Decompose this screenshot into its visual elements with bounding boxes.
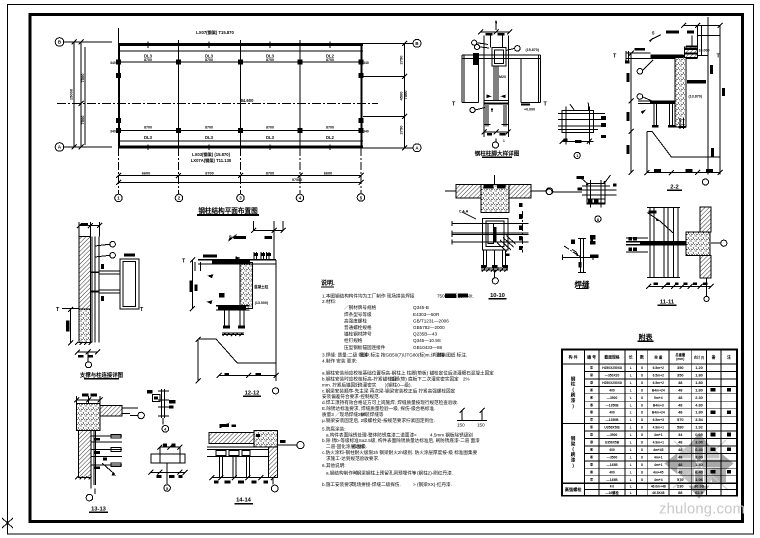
svg-text:④: ④ xyxy=(590,387,594,392)
svg-text:构·件: 构·件 xyxy=(569,354,578,359)
svg-text:L: L xyxy=(630,491,632,495)
svg-text:求施工-达到规范验收要求.: 求施工-达到规范验收要求. xyxy=(326,455,379,462)
svg-text:6600: 6600 xyxy=(142,171,150,175)
svg-text:—1350B: —1350B xyxy=(605,403,619,407)
svg-text:②: ② xyxy=(590,373,594,378)
svg-text:10-10: 10-10 xyxy=(490,293,505,299)
svg-text:8: 8 xyxy=(641,396,643,400)
svg-text:U356X5B: U356X5B xyxy=(605,441,620,445)
svg-text:1.06: 1.06 xyxy=(695,477,703,482)
svg-text:Q345—10.9S: Q345—10.9S xyxy=(413,338,441,343)
svg-text:580: 580 xyxy=(677,425,684,430)
svg-text:DL3: DL3 xyxy=(266,135,275,140)
svg-text:B4m+24: B4m+24 xyxy=(652,388,665,392)
svg-text:8700: 8700 xyxy=(205,58,213,62)
svg-text:400: 400 xyxy=(609,411,615,415)
svg-text:350: 350 xyxy=(677,373,684,378)
svg-text:L: L xyxy=(630,463,632,467)
svg-text:2.材料:: 2.材料: xyxy=(322,298,336,305)
svg-text:②: ② xyxy=(590,432,594,437)
svg-text:E4303—50R: E4303—50R xyxy=(413,312,440,317)
svg-text:L: L xyxy=(630,478,632,482)
svg-text:13-13: 13-13 xyxy=(91,507,107,513)
svg-text:4m+1: 4m+1 xyxy=(654,433,663,437)
svg-text:焊缝: 焊缝 xyxy=(575,279,590,289)
svg-text:8: 8 xyxy=(641,433,643,437)
svg-text:L: L xyxy=(630,485,632,489)
svg-text:84.600: 84.600 xyxy=(241,98,254,103)
svg-text:2750: 2750 xyxy=(399,55,404,65)
svg-text:③: ③ xyxy=(590,440,594,445)
svg-text:25d: 25d xyxy=(358,412,366,417)
svg-text:570: 570 xyxy=(677,477,684,482)
svg-text:F.0: F.0 xyxy=(610,485,615,489)
svg-text:30.08: 30.08 xyxy=(694,484,705,489)
svg-text:1.40: 1.40 xyxy=(695,462,703,467)
svg-text:(mm): (mm) xyxy=(676,357,684,361)
svg-text:1.80: 1.80 xyxy=(695,387,703,392)
svg-text:合计 (t): 合计 (t) xyxy=(694,354,704,359)
svg-text:—3500: —3500 xyxy=(607,433,618,437)
svg-text:8: 8 xyxy=(641,381,643,385)
svg-text:3.00: 3.00 xyxy=(695,440,703,445)
svg-text:DL2: DL2 xyxy=(326,135,335,140)
svg-text:1.80: 1.80 xyxy=(695,380,703,385)
svg-text:说明.: 说明. xyxy=(321,279,335,287)
svg-text:8: 8 xyxy=(641,448,643,452)
svg-text:B4m+3: B4m+3 xyxy=(653,403,664,407)
svg-text:4.9m+1: 4.9m+1 xyxy=(653,441,664,445)
svg-text:⑥: ⑥ xyxy=(590,410,594,415)
svg-text:0.05: 0.05 xyxy=(695,432,703,437)
svg-text:③: ③ xyxy=(590,380,594,385)
svg-text:46.5X48: 46.5X48 xyxy=(652,491,664,495)
svg-text:<钢梁钢柱上预留孔洞预埋件等: <钢梁钢柱上预留孔洞预埋件等 xyxy=(354,470,417,477)
svg-text:4m+45: 4m+45 xyxy=(653,448,664,452)
svg-text:4.80: 4.80 xyxy=(695,402,703,407)
svg-text:编 号: 编 号 xyxy=(587,354,596,359)
svg-text:> (钢柱2)-刷红丹漆.: > (钢柱2)-刷红丹漆. xyxy=(413,470,453,477)
svg-text:焊条型号等级: 焊条型号等级 xyxy=(344,311,372,318)
svg-text:L: L xyxy=(630,388,632,392)
svg-text:截面规格: 截面规格 xyxy=(604,354,619,359)
svg-text:15000: 15000 xyxy=(69,88,74,100)
svg-text:L: L xyxy=(630,418,632,422)
svg-text:L: L xyxy=(630,448,632,452)
svg-text:数: 数 xyxy=(639,354,644,359)
svg-text:(13.000): (13.000) xyxy=(255,301,269,305)
svg-text:图中:标注 按GB50(7)/JTG80(标)m,详图集: 图中:标注 按GB50(7)/JTG80(标)m,详图集 xyxy=(360,351,445,358)
svg-text:14-14: 14-14 xyxy=(236,498,252,504)
svg-text:230: 230 xyxy=(677,484,684,489)
svg-text:8700: 8700 xyxy=(326,125,334,129)
svg-text:L: L xyxy=(630,426,632,430)
svg-text:8700: 8700 xyxy=(144,58,152,62)
svg-text:6.5m+2: 6.5m+2 xyxy=(653,374,664,378)
svg-text:H250X250X8: H250X250X8 xyxy=(602,366,622,370)
svg-text:高强度螺栓: 高强度螺栓 xyxy=(344,317,367,324)
svg-text:11-11: 11-11 xyxy=(660,300,675,306)
svg-text:L: L xyxy=(630,374,632,378)
svg-text:C.A.H: C.A.H xyxy=(459,210,469,214)
svg-text:6.40: 6.40 xyxy=(695,447,703,452)
svg-text:8: 8 xyxy=(641,463,643,467)
svg-text:340: 340 xyxy=(363,130,369,134)
svg-text:2.30: 2.30 xyxy=(695,395,703,400)
svg-text:8: 8 xyxy=(641,478,643,482)
svg-text:⑤: ⑤ xyxy=(590,402,594,407)
svg-text:④: ④ xyxy=(590,454,594,459)
svg-text:DL3: DL3 xyxy=(205,135,214,140)
svg-text:7500: 7500 xyxy=(80,115,85,125)
svg-text:8700: 8700 xyxy=(266,58,274,62)
svg-text:L: L xyxy=(630,470,632,474)
svg-text:3.54: 3.54 xyxy=(695,417,703,422)
svg-text:①: ① xyxy=(590,425,594,430)
svg-text:1.80: 1.80 xyxy=(695,373,703,378)
svg-text:6.5m+2: 6.5m+2 xyxy=(653,366,664,370)
svg-text:zhulong.com: zhulong.com xyxy=(659,502,745,518)
svg-text:—1350B: —1350B xyxy=(605,418,619,422)
svg-text:4m+1: 4m+1 xyxy=(654,463,663,467)
svg-text:8: 8 xyxy=(641,426,643,430)
svg-text:⑦: ⑦ xyxy=(590,417,594,422)
svg-text:支撑与柱连接详图: 支撑与柱连接详图 xyxy=(79,371,124,379)
svg-text:⑥: ⑥ xyxy=(590,469,594,474)
svg-text:锚栓钢材牌号: 锚栓钢材牌号 xyxy=(344,331,372,338)
svg-text:8: 8 xyxy=(641,418,643,422)
svg-text:8: 8 xyxy=(641,455,643,459)
svg-text:普通螺栓规格: 普通螺栓规格 xyxy=(344,324,372,331)
svg-text:L: L xyxy=(630,455,632,459)
svg-text:GB5782—2000: GB5782—2000 xyxy=(413,325,445,330)
svg-text:4m+45: 4m+45 xyxy=(653,470,664,474)
svg-text:附表: 附表 xyxy=(639,333,654,342)
svg-text:L: L xyxy=(630,433,632,437)
svg-text:4500: 4500 xyxy=(399,91,404,101)
svg-text:现场拼接-焊缝二级探伤.: 现场拼接-焊缝二级探伤. xyxy=(352,481,401,488)
svg-text:①: ① xyxy=(590,365,594,370)
svg-text:(13.870): (13.870) xyxy=(689,95,703,99)
svg-text:钢柱结构平面布置图: 钢柱结构平面布置图 xyxy=(198,206,258,215)
svg-text:4m+4: 4m+4 xyxy=(654,478,663,482)
svg-text:150: 150 xyxy=(477,423,485,428)
svg-text:8700: 8700 xyxy=(205,171,213,175)
svg-text:+0.000: +0.000 xyxy=(524,108,535,112)
svg-text:LX07(钢梁) T15.870: LX07(钢梁) T15.870 xyxy=(196,29,234,36)
svg-text:—145B: —145B xyxy=(606,478,618,482)
svg-text:B: B xyxy=(58,40,61,45)
svg-text:μ.钢梁安装固定后, 2级螺栓处-按规范要求拧紧固定到位.: μ.钢梁安装固定后, 2级螺栓处-按规范要求拧紧固定到位. xyxy=(322,417,435,424)
svg-text:1: 1 xyxy=(503,139,505,143)
svg-text:B: B xyxy=(415,41,418,46)
svg-text:8: 8 xyxy=(641,441,643,445)
svg-text:钢柱柱脚大样详图: 钢柱柱脚大样详图 xyxy=(475,150,520,158)
svg-text:4.9m+1: 4.9m+1 xyxy=(653,426,664,430)
svg-text:⑤: ⑤ xyxy=(590,462,594,467)
svg-text:DL3: DL3 xyxy=(144,135,153,140)
svg-text:62.9: 62.9 xyxy=(695,490,703,495)
svg-text:GB/T1231—2006: GB/T1231—2006 xyxy=(413,318,449,323)
svg-text:2750: 2750 xyxy=(399,125,404,135)
svg-text:400: 400 xyxy=(609,470,615,474)
svg-text:L: L xyxy=(630,403,632,407)
svg-text:8: 8 xyxy=(641,403,643,407)
svg-text:57500: 57500 xyxy=(292,178,302,182)
svg-text:8700: 8700 xyxy=(326,58,334,62)
svg-text:L: L xyxy=(630,366,632,370)
svg-text:GB10433—88: GB10433—88 xyxy=(413,345,443,350)
svg-text:—3500: —3500 xyxy=(607,396,618,400)
svg-text:4.制作 安装 要求:: 4.制作 安装 要求: xyxy=(322,358,357,365)
svg-text:3.00: 3.00 xyxy=(695,454,703,459)
svg-text:b.施工安装要求: b.施工安装要求 xyxy=(322,481,354,488)
svg-text:1.80: 1.80 xyxy=(695,410,703,415)
svg-text:8: 8 xyxy=(641,366,643,370)
svg-text:150: 150 xyxy=(457,423,465,428)
svg-text:340: 340 xyxy=(110,61,116,65)
svg-text:长: 长 xyxy=(629,354,633,359)
svg-text:350: 350 xyxy=(677,365,684,370)
svg-text:400: 400 xyxy=(609,448,615,452)
svg-text:—3500: —3500 xyxy=(607,455,618,459)
svg-text:7500 总用钢 750t.: 7500 总用钢 750t. xyxy=(437,292,474,299)
svg-text:4m+1: 4m+1 xyxy=(654,455,663,459)
svg-text:U356X5/B: U356X5/B xyxy=(604,426,620,430)
svg-text:④: ④ xyxy=(590,447,594,452)
svg-text:8700: 8700 xyxy=(144,125,152,129)
svg-text:340: 340 xyxy=(363,61,369,65)
svg-text:混凝土柱: 混凝土柱 xyxy=(254,284,269,289)
svg-text:Q345-B: Q345-B xyxy=(413,305,429,310)
svg-text:8: 8 xyxy=(641,470,643,474)
svg-text:／钢材牌号规格: ／钢材牌号规格 xyxy=(344,304,377,311)
svg-text:B4m+24: B4m+24 xyxy=(652,411,665,415)
svg-text:6.5m+2: 6.5m+2 xyxy=(653,381,664,385)
svg-text:10.000: 10.000 xyxy=(699,49,710,53)
svg-text:单 重: 单 重 xyxy=(654,354,663,359)
svg-text:Q235B—43: Q235B—43 xyxy=(413,332,437,337)
svg-text:8: 8 xyxy=(641,374,643,378)
svg-text:5m+4: 5m+4 xyxy=(654,396,663,400)
svg-text:④: ④ xyxy=(590,395,594,400)
svg-text:1.92: 1.92 xyxy=(695,425,703,430)
svg-text:1.20: 1.20 xyxy=(695,365,703,370)
svg-text:6600: 6600 xyxy=(324,171,332,175)
svg-text:12-12: 12-12 xyxy=(245,390,260,396)
svg-text:—16螺栓: —16螺栓 xyxy=(605,490,619,495)
svg-text:8700: 8700 xyxy=(266,125,274,129)
svg-text:8: 8 xyxy=(641,411,643,415)
svg-text:8700: 8700 xyxy=(266,171,274,175)
svg-text:H250X250X8: H250X250X8 xyxy=(602,381,622,385)
svg-text:400: 400 xyxy=(609,388,615,392)
svg-text:6.5m+3: 6.5m+3 xyxy=(653,418,664,422)
svg-text:46.0m+48: 46.0m+48 xyxy=(651,485,666,489)
svg-text:340: 340 xyxy=(110,130,116,134)
svg-text:(15.870): (15.870) xyxy=(526,48,540,52)
svg-text:> (钢梁XX)-红丹漆.: > (钢梁XX)-红丹漆. xyxy=(413,481,452,488)
svg-text:M20: M20 xyxy=(499,75,506,79)
svg-text:2%: 2% xyxy=(463,377,470,382)
svg-text:栓钉规格: 栓钉规格 xyxy=(344,337,363,344)
svg-text:6.40: 6.40 xyxy=(695,469,703,474)
svg-text:LX07A(钢梁) T11.130: LX07A(钢梁) T11.130 xyxy=(191,157,232,164)
svg-text:L: L xyxy=(630,396,632,400)
svg-text:6.其他说明:: 6.其他说明: xyxy=(322,462,345,469)
svg-text:L: L xyxy=(630,411,632,415)
svg-text:8700: 8700 xyxy=(205,125,213,129)
svg-text:⑦: ⑦ xyxy=(590,477,594,482)
svg-text:7500: 7500 xyxy=(403,90,408,100)
svg-text:注: 注 xyxy=(727,354,731,359)
svg-text:高强螺栓: 高强螺栓 xyxy=(565,486,583,493)
svg-text:8: 8 xyxy=(641,388,643,392)
svg-text:—350X20: —350X20 xyxy=(605,374,620,378)
svg-text:—145B: —145B xyxy=(606,463,618,467)
svg-text:压型钢板锚固连接件: 压型钢板锚固连接件 xyxy=(344,344,386,351)
svg-text:7500: 7500 xyxy=(80,73,85,83)
svg-text:L: L xyxy=(630,381,632,385)
svg-text:570: 570 xyxy=(677,417,684,422)
svg-text:L: L xyxy=(630,441,632,445)
svg-text:其余图纸 标注.: 其余图纸 标注. xyxy=(437,351,467,358)
